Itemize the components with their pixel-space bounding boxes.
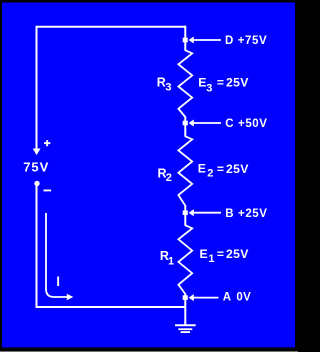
label +: [44, 142, 50, 144]
svg-text:=: =: [217, 76, 224, 90]
svg-text:2: 2: [166, 172, 172, 184]
wire segment R1 to ground: [184, 294, 186, 326]
wire left rail lower: [37, 184, 186, 308]
svg-text:=: =: [217, 247, 224, 261]
node A arrow: [189, 294, 194, 301]
svg-text:1: 1: [168, 255, 174, 267]
label -: [44, 190, 52, 192]
node A dot: [183, 295, 188, 300]
ground: [175, 324, 196, 326]
resistor R3: [178, 50, 192, 117]
label I: [57, 277, 59, 287]
node D arrow: [189, 37, 194, 44]
svg-text:E: E: [198, 162, 206, 176]
current indicator I arrow: [46, 213, 67, 297]
source - terminal dot: [34, 181, 39, 186]
svg-text:25V: 25V: [226, 162, 249, 176]
node B arrow: [189, 209, 194, 216]
source + terminal arrowhead: [33, 149, 41, 156]
svg-text:3: 3: [206, 82, 212, 94]
node C dot: [183, 121, 188, 126]
wire segment R2 to R1: [184, 205, 186, 226]
resistor R2: [178, 136, 192, 205]
svg-text:25V: 25V: [226, 247, 249, 261]
wire main top segment: [184, 26, 186, 51]
svg-text:E: E: [200, 247, 208, 261]
svg-text:D +75V: D +75V: [225, 35, 267, 47]
node D dot: [183, 38, 188, 43]
wire segment R3 to R2: [184, 117, 186, 137]
svg-text:R: R: [157, 76, 166, 90]
svg-text:=: =: [217, 162, 224, 176]
node B dot: [183, 210, 188, 215]
svg-text:A: A: [223, 292, 231, 304]
svg-text:3: 3: [165, 81, 171, 93]
svg-text:C +50V: C +50V: [225, 118, 267, 130]
resistor R1: [178, 225, 192, 294]
svg-text:2: 2: [207, 167, 213, 179]
svg-text:0V: 0V: [236, 292, 251, 304]
svg-text:75V: 75V: [23, 159, 49, 174]
wire top (node D to left rail): [37, 27, 186, 150]
node C arrow: [189, 120, 194, 127]
svg-text:B +25V: B +25V: [225, 208, 267, 220]
svg-text:25V: 25V: [226, 76, 249, 90]
svg-text:1: 1: [208, 253, 214, 265]
